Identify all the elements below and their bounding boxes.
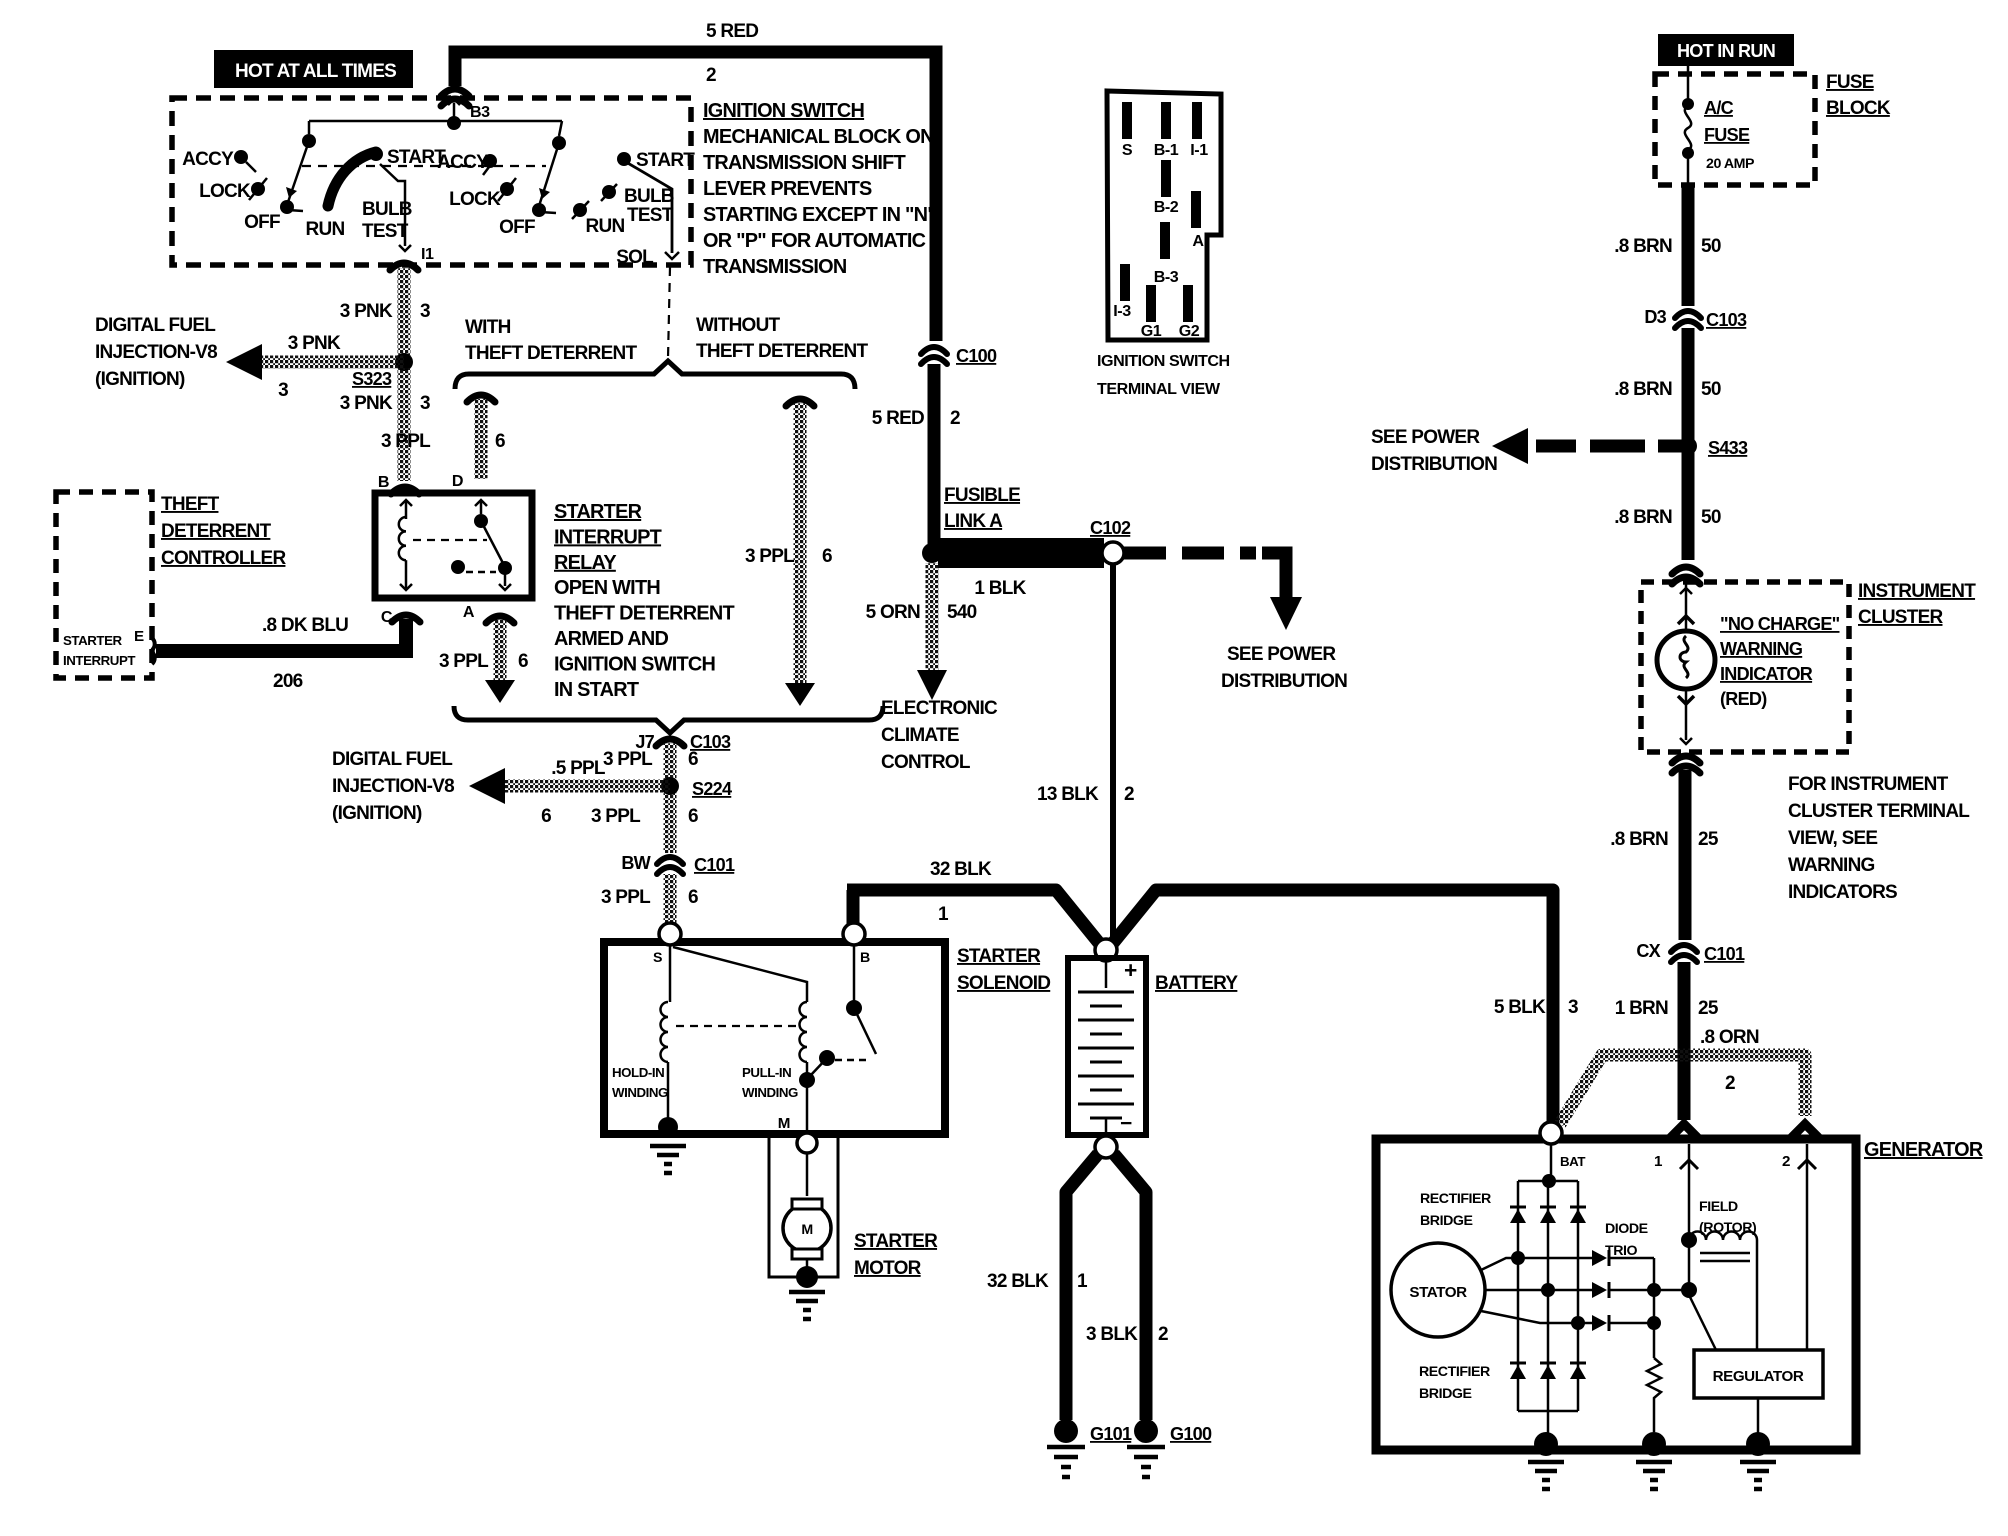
svg-text:WITH: WITH — [465, 317, 511, 338]
svg-text:3: 3 — [278, 380, 288, 401]
svg-text:TRANSMISSION: TRANSMISSION — [703, 256, 847, 278]
svg-text:CX: CX — [1636, 941, 1660, 961]
svg-text:IN START: IN START — [554, 679, 639, 701]
svg-text:"NO CHARGE": "NO CHARGE" — [1720, 614, 1840, 634]
svg-text:WARNING: WARNING — [1788, 855, 1875, 876]
svg-text:BATTERY: BATTERY — [1155, 973, 1238, 994]
svg-text:3 BLK: 3 BLK — [1086, 1324, 1138, 1345]
svg-text:BRIDGE: BRIDGE — [1420, 1213, 1472, 1229]
svg-text:INDICATOR: INDICATOR — [1720, 664, 1813, 684]
svg-text:3 PNK: 3 PNK — [288, 333, 341, 354]
svg-text:RELAY: RELAY — [554, 552, 616, 574]
svg-text:S224: S224 — [692, 779, 732, 799]
svg-text:1: 1 — [1654, 1153, 1663, 1170]
svg-text:B-2: B-2 — [1154, 198, 1179, 216]
svg-text:E: E — [134, 628, 144, 645]
svg-text:BW: BW — [621, 853, 651, 873]
svg-text:3 PPL: 3 PPL — [439, 651, 489, 672]
svg-text:20 AMP: 20 AMP — [1706, 156, 1754, 172]
svg-text:S: S — [1122, 141, 1133, 159]
svg-text:3 PNK: 3 PNK — [340, 393, 393, 414]
svg-text:STATOR: STATOR — [1409, 1284, 1467, 1301]
svg-text:C101: C101 — [694, 855, 735, 875]
svg-text:FIELD: FIELD — [1699, 1199, 1738, 1215]
svg-text:2: 2 — [950, 408, 960, 429]
svg-text:.8 BRN: .8 BRN — [1610, 829, 1668, 850]
svg-text:ACCY: ACCY — [437, 152, 489, 173]
svg-text:5 BLK: 5 BLK — [1494, 997, 1546, 1018]
svg-text:2: 2 — [1124, 784, 1134, 805]
svg-text:S433: S433 — [1708, 438, 1748, 458]
svg-text:TRANSMISSION SHIFT: TRANSMISSION SHIFT — [703, 152, 906, 174]
svg-text:.8 BRN: .8 BRN — [1614, 379, 1672, 400]
svg-text:D: D — [452, 472, 463, 490]
svg-text:LOCK: LOCK — [199, 181, 251, 202]
svg-text:MOTOR: MOTOR — [854, 1258, 922, 1279]
svg-text:BRIDGE: BRIDGE — [1419, 1386, 1471, 1402]
svg-text:C102: C102 — [1090, 518, 1131, 538]
svg-text:540: 540 — [947, 602, 977, 623]
svg-text:INTERRUPT: INTERRUPT — [63, 653, 135, 668]
svg-text:INDICATORS: INDICATORS — [1788, 882, 1897, 903]
svg-text:STARTER: STARTER — [957, 946, 1041, 967]
svg-text:206: 206 — [273, 671, 303, 692]
svg-text:INSTRUMENT: INSTRUMENT — [1858, 581, 1976, 602]
svg-text:3 PPL: 3 PPL — [381, 431, 431, 452]
svg-text:CLUSTER: CLUSTER — [1858, 607, 1944, 628]
svg-text:25: 25 — [1698, 829, 1719, 850]
svg-text:3: 3 — [420, 393, 430, 414]
svg-text:50: 50 — [1701, 379, 1721, 400]
svg-text:3 PPL: 3 PPL — [591, 806, 641, 827]
svg-text:.8 ORN: .8 ORN — [1700, 1027, 1759, 1048]
svg-text:1 BLK: 1 BLK — [974, 578, 1026, 599]
svg-text:PULL-IN: PULL-IN — [742, 1065, 791, 1080]
svg-text:6: 6 — [541, 806, 551, 827]
svg-text:.5 PPL: .5 PPL — [551, 758, 606, 779]
svg-text:CLIMATE: CLIMATE — [881, 725, 959, 746]
svg-text:D3: D3 — [1644, 307, 1666, 327]
svg-text:A: A — [463, 603, 475, 621]
svg-text:B-1: B-1 — [1154, 141, 1179, 159]
svg-text:6: 6 — [822, 546, 832, 567]
svg-text:A/C: A/C — [1704, 98, 1734, 118]
svg-text:START: START — [636, 150, 695, 171]
svg-text:25: 25 — [1698, 998, 1719, 1019]
svg-text:32 BLK: 32 BLK — [930, 859, 992, 880]
svg-text:THEFT DETERRENT: THEFT DETERRENT — [696, 341, 869, 362]
svg-text:6: 6 — [688, 806, 698, 827]
svg-text:.8 BRN: .8 BRN — [1614, 236, 1672, 257]
svg-text:STARTER: STARTER — [554, 501, 642, 523]
svg-text:HOT IN RUN: HOT IN RUN — [1677, 41, 1775, 61]
svg-text:IGNITION SWITCH: IGNITION SWITCH — [554, 653, 716, 675]
svg-text:C101: C101 — [1704, 944, 1745, 964]
svg-text:CONTROL: CONTROL — [881, 752, 971, 773]
svg-text:(IGNITION): (IGNITION) — [332, 803, 422, 824]
svg-text:WINDING: WINDING — [612, 1085, 668, 1100]
svg-text:3 PPL: 3 PPL — [603, 749, 653, 770]
svg-text:S: S — [653, 950, 662, 966]
svg-text:INJECTION-V8: INJECTION-V8 — [95, 342, 217, 363]
svg-text:3: 3 — [1568, 997, 1578, 1018]
svg-text:WITHOUT: WITHOUT — [696, 315, 781, 336]
svg-text:ELECTRONIC: ELECTRONIC — [881, 698, 998, 719]
svg-text:A: A — [1192, 232, 1204, 250]
svg-text:1: 1 — [1077, 1271, 1088, 1292]
svg-text:ACCY: ACCY — [182, 149, 234, 170]
svg-text:(RED): (RED) — [1720, 689, 1767, 709]
svg-text:(IGNITION): (IGNITION) — [95, 369, 185, 390]
svg-text:2: 2 — [1158, 1324, 1168, 1345]
svg-text:OFF: OFF — [499, 217, 535, 238]
svg-text:1: 1 — [938, 904, 949, 925]
svg-text:6: 6 — [495, 431, 505, 452]
svg-text:(ROTOR): (ROTOR) — [1699, 1220, 1757, 1236]
svg-text:TEST: TEST — [627, 205, 674, 226]
svg-text:S323: S323 — [352, 369, 392, 389]
svg-text:REGULATOR: REGULATOR — [1713, 1368, 1804, 1385]
svg-text:VIEW, SEE: VIEW, SEE — [1788, 828, 1877, 849]
svg-text:THEFT DETERRENT: THEFT DETERRENT — [465, 343, 638, 364]
svg-text:B: B — [378, 473, 389, 491]
svg-text:THEFT DETERRENT: THEFT DETERRENT — [554, 603, 735, 625]
svg-text:OPEN WITH: OPEN WITH — [554, 577, 660, 599]
svg-text:M: M — [778, 1115, 790, 1132]
svg-text:FUSE: FUSE — [1704, 125, 1750, 145]
svg-text:RECTIFIER: RECTIFIER — [1419, 1364, 1490, 1380]
svg-text:LOCK: LOCK — [449, 189, 501, 210]
svg-text:6: 6 — [688, 887, 698, 908]
svg-text:RUN: RUN — [586, 216, 625, 237]
svg-text:LEVER PREVENTS: LEVER PREVENTS — [703, 178, 872, 200]
svg-text:5 ORN: 5 ORN — [866, 602, 920, 623]
svg-text:.8 BRN: .8 BRN — [1614, 507, 1672, 528]
svg-text:2: 2 — [706, 65, 716, 86]
svg-text:B-3: B-3 — [1154, 268, 1179, 286]
svg-text:DETERRENT: DETERRENT — [161, 521, 272, 542]
svg-text:2: 2 — [1782, 1153, 1790, 1170]
svg-text:B3: B3 — [470, 103, 490, 121]
svg-text:C103: C103 — [1706, 310, 1747, 330]
svg-text:HOT AT ALL TIMES: HOT AT ALL TIMES — [235, 61, 396, 82]
svg-text:2: 2 — [1725, 1073, 1735, 1094]
svg-text:DISTRIBUTION: DISTRIBUTION — [1221, 671, 1347, 692]
svg-text:6: 6 — [688, 749, 698, 770]
svg-text:50: 50 — [1701, 236, 1721, 257]
svg-text:INTERRUPT: INTERRUPT — [554, 526, 662, 548]
svg-text:1 BRN: 1 BRN — [1615, 998, 1668, 1019]
svg-text:HOLD-IN: HOLD-IN — [612, 1065, 664, 1080]
svg-text:50: 50 — [1701, 507, 1721, 528]
svg-text:FUSIBLE: FUSIBLE — [944, 485, 1020, 506]
svg-text:SEE POWER: SEE POWER — [1371, 427, 1480, 448]
svg-text:G101: G101 — [1090, 1424, 1132, 1444]
svg-text:−: − — [1120, 1112, 1132, 1135]
svg-text:I-3: I-3 — [1113, 302, 1131, 320]
svg-text:STARTER: STARTER — [63, 633, 123, 648]
svg-text:GENERATOR: GENERATOR — [1864, 1139, 1983, 1161]
svg-text:TEST: TEST — [362, 221, 409, 242]
svg-text:RECTIFIER: RECTIFIER — [1420, 1191, 1491, 1207]
svg-text:STARTING EXCEPT IN "N": STARTING EXCEPT IN "N" — [703, 204, 936, 226]
svg-text:FOR INSTRUMENT: FOR INSTRUMENT — [1788, 774, 1949, 795]
svg-text:WARNING: WARNING — [1720, 639, 1802, 659]
svg-text:THEFT: THEFT — [161, 494, 220, 515]
svg-text:SEE POWER: SEE POWER — [1227, 644, 1336, 665]
svg-text:32 BLK: 32 BLK — [987, 1271, 1049, 1292]
svg-text:OFF: OFF — [244, 212, 280, 233]
svg-text:BULB: BULB — [624, 186, 674, 207]
svg-text:IGNITION SWITCH: IGNITION SWITCH — [1097, 352, 1230, 370]
svg-text:.8 DK BLU: .8 DK BLU — [262, 615, 348, 636]
svg-text:BAT: BAT — [1560, 1154, 1585, 1169]
svg-text:DIODE: DIODE — [1605, 1221, 1648, 1237]
svg-text:3 PNK: 3 PNK — [340, 301, 393, 322]
svg-text:ARMED AND: ARMED AND — [554, 628, 668, 650]
svg-text:BLOCK: BLOCK — [1826, 98, 1891, 119]
svg-text:SOL: SOL — [616, 247, 654, 268]
svg-text:G1: G1 — [1141, 322, 1162, 340]
svg-text:M: M — [801, 1222, 812, 1238]
svg-text:STARTER: STARTER — [854, 1231, 938, 1252]
svg-text:LINK A: LINK A — [944, 511, 1003, 532]
svg-text:6: 6 — [518, 651, 528, 672]
svg-text:FUSE: FUSE — [1826, 72, 1874, 93]
svg-text:I1: I1 — [421, 245, 434, 263]
svg-text:13 BLK: 13 BLK — [1037, 784, 1099, 805]
svg-text:DIGITAL FUEL: DIGITAL FUEL — [332, 749, 453, 770]
svg-text:3 PPL: 3 PPL — [745, 546, 795, 567]
svg-text:TRIO: TRIO — [1605, 1243, 1638, 1259]
svg-text:3 PPL: 3 PPL — [601, 887, 651, 908]
svg-text:DIGITAL FUEL: DIGITAL FUEL — [95, 315, 216, 336]
svg-text:B: B — [860, 950, 870, 966]
svg-text:MECHANICAL BLOCK ON: MECHANICAL BLOCK ON — [703, 126, 934, 148]
svg-text:DISTRIBUTION: DISTRIBUTION — [1371, 454, 1497, 475]
svg-text:G100: G100 — [1170, 1424, 1212, 1444]
svg-text:IGNITION SWITCH: IGNITION SWITCH — [703, 100, 865, 122]
svg-text:CONTROLLER: CONTROLLER — [161, 548, 286, 569]
svg-text:5 RED: 5 RED — [872, 408, 924, 429]
svg-text:+: + — [1124, 957, 1137, 983]
svg-text:I-1: I-1 — [1190, 141, 1208, 159]
svg-text:WINDING: WINDING — [742, 1085, 798, 1100]
svg-text:INJECTION-V8: INJECTION-V8 — [332, 776, 454, 797]
svg-text:OR "P" FOR AUTOMATIC: OR "P" FOR AUTOMATIC — [703, 230, 926, 252]
svg-text:RUN: RUN — [306, 219, 345, 240]
svg-text:SOLENOID: SOLENOID — [957, 973, 1050, 994]
svg-text:5 RED: 5 RED — [706, 21, 758, 42]
svg-text:TERMINAL VIEW: TERMINAL VIEW — [1097, 380, 1221, 398]
svg-text:G2: G2 — [1179, 322, 1200, 340]
svg-text:C100: C100 — [956, 346, 997, 366]
svg-text:CLUSTER TERMINAL: CLUSTER TERMINAL — [1788, 801, 1970, 822]
svg-text:3: 3 — [420, 301, 430, 322]
